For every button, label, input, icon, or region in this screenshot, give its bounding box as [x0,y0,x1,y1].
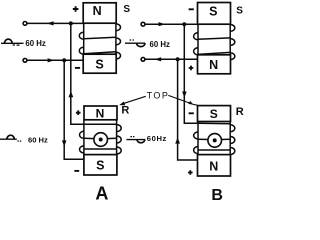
electromagnet A1 bottom pole block S [83,54,116,73]
coil B1 core side edges [197,24,199,55]
current arrow down on J3 wire [182,92,187,98]
wire J3 down to coil B2 [184,24,198,123]
coil B2 winding line 2 right [221,138,230,140]
junction dot J3 [182,22,186,26]
svg-text:60 Hz: 60 Hz [28,135,48,144]
AC source 3 symbol [0,138,17,140]
electromagnet A2 top pole block N [84,106,117,120]
leader line TOP to rotor B2 [168,95,197,105]
current arrow on wire T3 pointing right [159,22,166,26]
wire J2 down to coil A2 [64,60,84,159]
coil A2 winding line 1 [84,123,117,125]
coil B1 right loops [230,24,235,59]
coil A2 left loops [80,131,84,153]
rotor conductor symbol current out of page [94,133,108,147]
coil B2 left loops [194,132,198,154]
svg-text:S: S [96,159,104,173]
minus sign at A2 bottom [74,170,79,172]
electromagnet B1 bottom pole block N [198,55,231,74]
svg-text:TOP: TOP [147,90,170,100]
terminal T3 of unit B [141,22,145,26]
electromagnet B2 top pole block S [198,106,231,122]
coil A2 winding line 3 [84,148,117,150]
junction dot J4 [176,57,180,61]
wire T3 to coil B1 [145,23,198,25]
svg-text:60Hz: 60Hz [147,134,167,143]
coil B2 right loops [230,125,235,155]
rotor conductor symbol current out of page [208,134,222,148]
plus sign at B2 bottom [188,170,193,175]
svg-text:S: S [210,107,218,121]
electromagnet B2 bottom pole block N [198,155,231,176]
electromagnet A1 top pole block N [83,3,116,23]
wire T2 to coil A1 [27,59,84,61]
terminal T1 of unit A [23,22,27,26]
plus sign at A2 top [76,110,81,115]
current arrow on wire T1 pointing left [47,21,54,25]
coil B1 left loops [194,33,198,55]
current arrow on wire T2 pointing right [48,58,55,62]
electromagnet B1 top pole block S [198,3,231,25]
coil A1 right loops [116,24,121,59]
current arrow on wire T4 pointing left [154,57,161,61]
junction dot J1 [69,21,73,25]
svg-text:N: N [209,58,218,72]
AC source 4 symbol [126,139,145,141]
svg-text:S: S [209,5,217,19]
coil B2 core side edges [197,122,199,155]
wire T4 to coil B1 [145,58,198,60]
svg-text:R: R [236,106,244,118]
coil B2 winding line 3 [198,149,230,151]
minus sign at B1 top [189,8,194,10]
svg-text:60 Hz: 60 Hz [150,40,170,49]
coil A2 winding line 2 right [107,137,116,139]
coil B1 winding line 3 [198,52,230,54]
current arrow down on J2 wire [62,140,67,146]
svg-text:N: N [209,159,218,173]
coil A1 core side edges [83,23,85,54]
svg-text:S: S [123,4,130,15]
coil A2 right loops [117,125,122,154]
svg-text:A: A [95,183,108,201]
plus sign at B1 bottom [189,66,194,71]
svg-text:N: N [93,4,102,18]
svg-text:R: R [121,104,129,116]
svg-text:B: B [211,187,223,201]
electromagnet A2 bottom pole block S [84,155,117,175]
coil A2 winding line 2 left [84,137,94,139]
terminal T4 of unit B [141,57,145,61]
terminal T2 of unit A [23,58,27,62]
AC source 1 symbol [1,42,24,44]
minus sign at B2 top [189,112,194,114]
svg-text:60 Hz: 60 Hz [25,39,45,48]
coil B1 winding line 2 [198,38,230,39]
current arrow up on J4 wire [175,137,180,143]
minus sign at A1 bottom [75,67,80,69]
AC source 2 symbol [125,42,145,44]
arrowhead of leader to A2 [119,102,125,106]
svg-text:S: S [95,57,103,71]
coil B2 winding line 2 left [198,138,208,140]
arrowhead of leader to B2 [188,101,193,105]
coil A1 winding line 2 [84,37,116,38]
coil A1 left loops [79,32,83,54]
wire J1 down to coil A2 [71,23,84,124]
svg-text:N: N [96,107,105,121]
current arrow up on J1 wire [69,91,74,97]
junction dot J2 [62,58,66,62]
svg-text:S: S [236,6,243,17]
wire T1 to coil A1 [27,22,83,24]
coil B2 winding line 1 [198,122,230,125]
coil A1 winding line 3 [84,52,116,54]
plus sign at A1 top [73,6,79,12]
leader line TOP to rotor A2 [123,96,146,104]
wire J4 down to coil B2 [178,59,198,160]
coil A2 core side edges [83,120,85,155]
